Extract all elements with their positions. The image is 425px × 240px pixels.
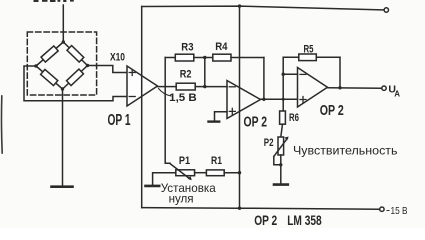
svg-text:OP 2: OP 2 — [320, 103, 344, 119]
node bridge bottom — [61, 87, 64, 90]
wire output to terminal — [328, 87, 382, 89]
wire supply vertical through OP2 — [239, 6, 241, 208]
wire P1 left lead to ground — [153, 173, 176, 185]
potentiometer P2 — [274, 137, 289, 157]
svg-text:X10: X10 — [110, 52, 125, 64]
ground bridge — [52, 185, 73, 188]
terminal top-right — [384, 8, 388, 12]
wire top supply rail — [142, 6, 384, 10]
node non-inverting row crossing — [282, 98, 285, 101]
ground P1 — [146, 185, 160, 188]
node bridge left — [34, 64, 37, 67]
svg-text:R2: R2 — [180, 68, 192, 80]
svg-text:R4: R4 — [215, 41, 228, 53]
svg-text:R1: R1 — [211, 155, 222, 167]
op-amp OP2 (second half) — [298, 68, 328, 108]
wire sensor top lead — [62, 5, 64, 42]
wire R3/R2 junction vertical — [204, 58, 206, 87]
resistor R2 — [165, 83, 205, 90]
svg-text:LM 358: LM 358 — [287, 212, 322, 228]
wire feedback branch vertical — [164, 58, 166, 87]
wire R5 down to output — [339, 57, 341, 88]
node inverting input tee — [282, 73, 285, 76]
wire bridge left node to OP1 inverting input — [24, 66, 127, 101]
leader 1,5V arrow — [159, 89, 172, 97]
node output feedback — [338, 86, 341, 89]
wire OP2 output to second stage — [261, 98, 298, 100]
node bridge right — [86, 64, 89, 67]
wire P2 to ground — [280, 155, 282, 184]
wire second stage inverting branch vertical — [282, 57, 284, 111]
wire OP2 non-inverting input to ground — [215, 112, 228, 121]
top cut-off caption remnants — [34, 0, 74, 2]
node R1 to supply line — [238, 171, 241, 174]
wire bridge bottom node down — [62, 89, 64, 186]
node OP2 output feedback — [262, 98, 265, 101]
node top rail / OP2 supply — [238, 4, 241, 7]
potentiometer P1 — [170, 164, 195, 181]
resistor R5 — [283, 54, 340, 61]
op-amp OP2 (first half) — [227, 81, 261, 119]
svg-text:OP 1: OP 1 — [108, 112, 131, 129]
sensor bridge dashed enclosure — [27, 32, 96, 95]
svg-text:R3: R3 — [181, 42, 193, 54]
node bridge top — [62, 40, 65, 43]
bridge resistor (top-right arm) — [67, 46, 84, 63]
wire bottom supply rail — [142, 208, 380, 210]
svg-text:Чувствительность: Чувствительность — [293, 144, 398, 158]
wire OP1 output down to P1 wiper — [165, 87, 170, 164]
wire supply vertical through OP1 — [141, 7, 143, 208]
terminal bottom-right 15V — [380, 207, 384, 211]
wire OP1 output — [158, 86, 166, 88]
terminal UA — [382, 86, 386, 90]
svg-text:R6: R6 — [289, 112, 299, 124]
node bottom rail — [238, 207, 241, 210]
node R2 output — [203, 85, 206, 88]
svg-text:P1: P1 — [179, 155, 190, 167]
resistor R4 — [205, 54, 264, 61]
wire P2 wiper tie — [274, 157, 281, 165]
svg-text:OP 2: OP 2 — [254, 212, 277, 228]
wire R6 to P2 — [281, 124, 283, 137]
wire R4 feedback down to OP2 output — [263, 58, 265, 100]
svg-text:R5: R5 — [304, 43, 314, 55]
node R3-R4 — [203, 56, 206, 59]
resistor R1 — [195, 170, 240, 176]
svg-text:15 В: 15 В — [391, 205, 408, 217]
svg-text:нуля: нуля — [169, 192, 194, 206]
op-amp OP1 — [127, 66, 158, 106]
resistor R3 — [165, 54, 205, 61]
bridge resistor (top-left arm) — [41, 46, 58, 62]
resistor R6 — [280, 111, 286, 124]
ground OP2 non-inverting input — [209, 120, 220, 122]
ground P2 — [274, 183, 288, 186]
page-edge scan artifact — [0, 96, 3, 153]
wire bridge diamond edges — [36, 42, 88, 89]
svg-text:1,5 В: 1,5 В — [169, 92, 197, 104]
svg-text:A: A — [394, 89, 400, 98]
wire bridge right node to OP1 non-inverting input — [88, 66, 128, 73]
wire to OP2 inverting input — [205, 86, 227, 88]
node P2 tie — [279, 163, 282, 166]
bridge resistor (bottom-left arm) — [41, 69, 58, 85]
bridge resistor (bottom-right arm) — [67, 69, 84, 85]
svg-text:OP 2: OP 2 — [244, 115, 268, 131]
wire to OP2b inverting input — [283, 73, 297, 75]
svg-text:P2: P2 — [264, 137, 274, 149]
